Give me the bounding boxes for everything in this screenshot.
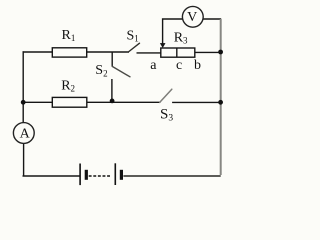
wire right vertical (gray) — [220, 19, 222, 175]
junction node S3 right — [218, 100, 223, 105]
wire left vertical upper — [22, 52, 24, 123]
wire bottom-right horizontal (dark gray) — [123, 175, 220, 177]
battery cell 2 short thick plate — [120, 170, 123, 180]
battery dashed link — [89, 175, 111, 177]
battery cell 1 long plate — [79, 164, 81, 186]
wire R3 right to node — [195, 51, 220, 53]
switch S2 — [112, 52, 130, 102]
svg-text:b: b — [194, 58, 201, 73]
rheostat slider arrow — [160, 43, 165, 47]
junction node R3 right — [218, 50, 223, 55]
resistor R1 — [52, 48, 86, 57]
wire R2 right to S3 pivot — [87, 101, 160, 103]
wire top-left horizontal to R1 — [23, 51, 52, 53]
rheostat R3 — [161, 48, 195, 57]
wire voltmeter left + down to slider — [163, 19, 183, 44]
voltmeter V — [182, 6, 203, 27]
wire R1 right to S1 pivot — [87, 51, 129, 53]
svg-text:A: A — [20, 126, 31, 141]
junction node left (R2 tap) — [21, 100, 26, 105]
battery cell 2 long plate — [114, 163, 116, 185]
wire S1 contact to R3 — [137, 52, 161, 54]
wire S3 contact to right node — [173, 101, 220, 103]
ammeter A — [13, 123, 34, 144]
wire bottom-left horizontal — [23, 175, 79, 177]
switch S3 — [160, 89, 172, 102]
battery cell 1 short thick plate — [85, 170, 88, 180]
svg-text:V: V — [187, 10, 197, 25]
wire voltmeter right — [203, 18, 220, 20]
resistor R2 — [52, 97, 87, 107]
wire R2 from left node — [23, 101, 52, 103]
svg-text:a: a — [150, 58, 157, 73]
svg-text:c: c — [176, 58, 182, 73]
junction node S2 bottom — [110, 99, 115, 104]
switch S1 — [128, 43, 139, 52]
wire left vertical lower — [23, 144, 25, 176]
